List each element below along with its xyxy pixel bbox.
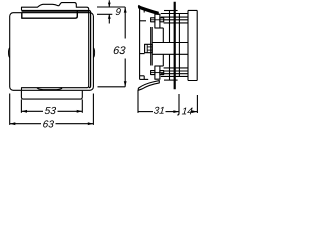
- 63 vertical top arrow: [124, 7, 127, 13]
- top claw bracket cross: [155, 14, 160, 28]
- 63 vertical bottom arrow: [124, 81, 127, 87]
- frame back edges: [143, 8, 145, 12]
- plate top silhouette (rocker profile): [22, 3, 89, 88]
- chassis horizontals top: [164, 10, 178, 12]
- dim 53 line: [21, 110, 43, 112]
- top claw arm: [138, 5, 158, 14]
- bottom claw arm (curved): [138, 81, 159, 91]
- dim 63 vertical bottom ext: [98, 86, 126, 88]
- support ring (lower box): [21, 91, 82, 99]
- label 31: [154, 107, 160, 114]
- chassis mid lines: [152, 42, 188, 44]
- dim 31 line: [138, 111, 153, 113]
- rocker front face lower edge: [22, 11, 78, 19]
- 63 bottom left arrow: [10, 122, 16, 125]
- band filler between plate edge and frame edge: [22, 11, 89, 13]
- label 9: [115, 8, 121, 15]
- 9 bottom arrow: [108, 14, 111, 18]
- dim 53 extension left: [20, 99, 22, 112]
- 9 top arrow: [108, 3, 111, 7]
- 63 bottom right arrow: [88, 122, 94, 125]
- 53 left arrow: [21, 110, 27, 113]
- 31 right arrow: [173, 110, 179, 113]
- frame front face: [139, 8, 141, 79]
- dim 14 line: [191, 111, 198, 113]
- plate front bottom edge: [22, 88, 88, 91]
- dim 53 extension right: [81, 99, 83, 112]
- bottom claw bracket cross: [155, 66, 160, 79]
- label 63 vertical: [113, 46, 119, 54]
- dim 9 ext line top: [97, 6, 125, 8]
- chassis verticals: [162, 28, 164, 43]
- right clip bump: [93, 48, 94, 58]
- label 53: [45, 107, 51, 114]
- dim 63 vertical line: [124, 7, 126, 39]
- dim 9 arrow tails: [108, 0, 110, 7]
- wall box: [188, 10, 197, 80]
- chassis horizontals bottom: [164, 67, 188, 69]
- arrowheads: [10, 3, 198, 126]
- label 63 bottom: [43, 120, 49, 127]
- dim 31 ext B: [177, 94, 179, 115]
- dim 63 bottom extension left: [9, 94, 11, 125]
- left clip bump: [9, 48, 10, 58]
- support ring plate: [150, 27, 152, 66]
- plate front top edge: [21, 11, 90, 88]
- fixing screw shaft: [174, 2, 176, 89]
- labels: [43, 8, 193, 127]
- 53 right arrow: [77, 110, 83, 113]
- dim 63 bottom line: [10, 123, 41, 125]
- rocker bottom bump: [37, 88, 62, 90]
- dim 31 ext A: [137, 90, 139, 113]
- dim 9 ext line bottom: [97, 13, 112, 15]
- label 14: [182, 108, 187, 115]
- 14 right arrow: [192, 110, 198, 113]
- dim 14 ext C: [196, 95, 198, 113]
- dim 63 bottom extension right: [92, 94, 94, 125]
- frame outer square (front view): [10, 13, 94, 91]
- central screw block: [145, 44, 153, 52]
